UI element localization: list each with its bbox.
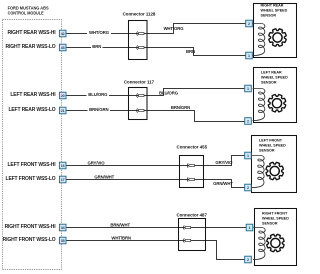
svg-text:GRN/WHT: GRN/WHT xyxy=(213,181,233,186)
RR sensor gear xyxy=(269,29,286,46)
svg-text:WHEEL SPEED: WHEEL SPEED xyxy=(261,75,288,79)
svg-text:Connector 487: Connector 487 xyxy=(176,212,207,217)
module pin 17 row6 xyxy=(59,176,66,183)
svg-text:WHT/ORG: WHT/ORG xyxy=(163,26,184,31)
svg-text:LEFT FRONT WSS-HI: LEFT FRONT WSS-HI xyxy=(8,162,57,168)
svg-text:1: 1 xyxy=(248,54,250,58)
svg-text:21: 21 xyxy=(61,109,65,113)
connector 1128 terminal row2 xyxy=(137,45,144,49)
svg-text:2: 2 xyxy=(247,119,249,123)
LR sensor pin 2 xyxy=(245,118,252,125)
RIGHT REAR wheel speed sensor box xyxy=(254,4,297,58)
wire label WHT/ORG row1 xyxy=(87,30,111,35)
svg-text:RIGHT FRONT WSS-HI: RIGHT FRONT WSS-HI xyxy=(5,224,57,230)
svg-text:17: 17 xyxy=(61,178,65,182)
wire label BLU/ORG row3 xyxy=(87,92,110,97)
svg-text:BRN: BRN xyxy=(92,44,101,49)
svg-text:LEFT FRONT: LEFT FRONT xyxy=(259,138,283,142)
connector 117 terminal row4 xyxy=(137,108,144,112)
svg-text:2: 2 xyxy=(247,186,249,190)
module pin 16 row5 xyxy=(59,162,66,169)
module pin 43 row2 xyxy=(59,44,66,51)
RR sensor coil xyxy=(253,24,265,56)
svg-text:34: 34 xyxy=(61,226,65,230)
svg-text:Connector 1128: Connector 1128 xyxy=(123,12,156,17)
svg-text:BLU/ORG: BLU/ORG xyxy=(88,92,108,97)
svg-text:16: 16 xyxy=(61,164,65,168)
connector 1128 box xyxy=(129,21,148,60)
svg-text:1: 1 xyxy=(247,154,249,158)
svg-text:GRY/VIO: GRY/VIO xyxy=(87,161,105,166)
svg-text:CONTROL MODULE: CONTROL MODULE xyxy=(8,11,45,17)
svg-text:1: 1 xyxy=(249,226,251,230)
connector 487 terminal row8 xyxy=(183,238,190,242)
wire module to connector 487 row7 xyxy=(66,227,246,229)
module pin 20 row3 xyxy=(59,92,66,99)
svg-text:GRN/WHT: GRN/WHT xyxy=(94,175,114,180)
svg-text:BRN: BRN xyxy=(186,49,195,54)
wire module to connector 117 row3 xyxy=(66,89,244,96)
svg-text:SENSOR: SENSOR xyxy=(262,221,278,225)
module pin 34 row7 xyxy=(59,224,66,231)
wire label BRN/GRN row4 xyxy=(88,107,111,112)
RF sensor gear xyxy=(267,234,284,251)
svg-text:SENSOR: SENSOR xyxy=(261,80,277,84)
svg-text:35: 35 xyxy=(61,239,65,243)
RF sensor pin 2 xyxy=(245,256,252,263)
LR sensor pin 1 xyxy=(245,85,252,92)
module pin 42 row1 xyxy=(59,30,66,37)
module pin 35 row8 xyxy=(59,237,66,244)
svg-text:2: 2 xyxy=(248,22,250,26)
svg-text:SENSOR: SENSOR xyxy=(259,148,275,152)
wire module to connector 455 row6 xyxy=(66,180,244,188)
svg-text:RIGHT REAR: RIGHT REAR xyxy=(261,4,284,8)
connector 1128 terminal row1 xyxy=(137,31,144,35)
connector 117 terminal row3 xyxy=(137,93,144,97)
LF sensor coil xyxy=(252,156,264,188)
connector 117 box xyxy=(129,88,148,120)
svg-text:LEFT FRONT WSS-LO: LEFT FRONT WSS-LO xyxy=(6,176,56,182)
wire module to connector 1128 row2 xyxy=(66,48,245,56)
LR sensor coil xyxy=(253,89,265,121)
svg-text:RIGHT FRONT WSS-LO: RIGHT FRONT WSS-LO xyxy=(3,237,56,243)
svg-text:RIGHT REAR WSS-LO: RIGHT REAR WSS-LO xyxy=(6,44,56,50)
svg-text:WHEEL SPEED: WHEEL SPEED xyxy=(261,9,288,13)
svg-text:WHEEL SPEED: WHEEL SPEED xyxy=(262,216,289,220)
svg-text:LEFT REAR: LEFT REAR xyxy=(261,70,282,74)
svg-text:LEFT REAR WSS-HI: LEFT REAR WSS-HI xyxy=(10,92,56,98)
wire module to connector 117 row4 xyxy=(66,111,244,122)
svg-text:20: 20 xyxy=(61,94,65,98)
LEFT REAR wheel speed sensor box xyxy=(254,68,297,123)
RR sensor pin 2 xyxy=(246,20,253,27)
svg-text:WHT/ORG: WHT/ORG xyxy=(89,30,110,35)
wire module to connector 487 row8 xyxy=(66,241,244,260)
wire label BRN row2 xyxy=(91,44,103,49)
svg-text:43: 43 xyxy=(61,46,65,50)
LF sensor pin 1 xyxy=(245,152,252,159)
connector 455 terminal row6 xyxy=(187,177,194,181)
RF sensor pin 1 xyxy=(246,224,253,231)
LEFT FRONT wheel speed sensor box xyxy=(252,136,297,193)
RR sensor pin 1 xyxy=(246,52,253,59)
RIGHT FRONT wheel speed sensor box xyxy=(255,209,297,266)
LF sensor pin 2 xyxy=(245,184,252,191)
connector 455 box xyxy=(180,156,204,188)
LF sensor gear xyxy=(266,162,283,179)
module pin 21 row4 xyxy=(59,107,66,114)
svg-text:RIGHT FRONT: RIGHT FRONT xyxy=(262,211,288,215)
svg-text:BRN/GRN: BRN/GRN xyxy=(89,107,108,112)
connector 487 box xyxy=(179,219,206,251)
svg-text:LEFT REAR WSS-LO: LEFT REAR WSS-LO xyxy=(8,107,55,113)
svg-text:Connector 455: Connector 455 xyxy=(177,145,208,150)
ABS control module dashed box xyxy=(3,20,62,270)
LR sensor gear xyxy=(268,94,285,111)
svg-text:1: 1 xyxy=(247,87,249,91)
connector 455 terminal row5 xyxy=(187,163,194,167)
wire module to connector 1128 row1 xyxy=(66,24,245,34)
svg-text:42: 42 xyxy=(61,32,65,36)
svg-text:Connector 117: Connector 117 xyxy=(124,80,155,85)
svg-text:RIGHT REAR WSS-HI: RIGHT REAR WSS-HI xyxy=(7,30,56,36)
wire module to connector 455 row5 xyxy=(66,156,244,166)
svg-text:WHT/BRN: WHT/BRN xyxy=(111,236,131,241)
svg-text:BLU/ORG: BLU/ORG xyxy=(159,91,179,96)
svg-text:GRY/VIO: GRY/VIO xyxy=(215,160,233,165)
svg-text:SENSOR: SENSOR xyxy=(261,14,277,18)
connector 487 terminal row7 xyxy=(183,225,190,229)
svg-text:WHEEL SPEED: WHEEL SPEED xyxy=(259,143,286,147)
svg-text:BRN/WHT: BRN/WHT xyxy=(110,223,130,228)
RF sensor coil xyxy=(253,228,265,260)
svg-text:BRN/GRN: BRN/GRN xyxy=(171,105,190,110)
svg-text:2: 2 xyxy=(247,258,249,262)
